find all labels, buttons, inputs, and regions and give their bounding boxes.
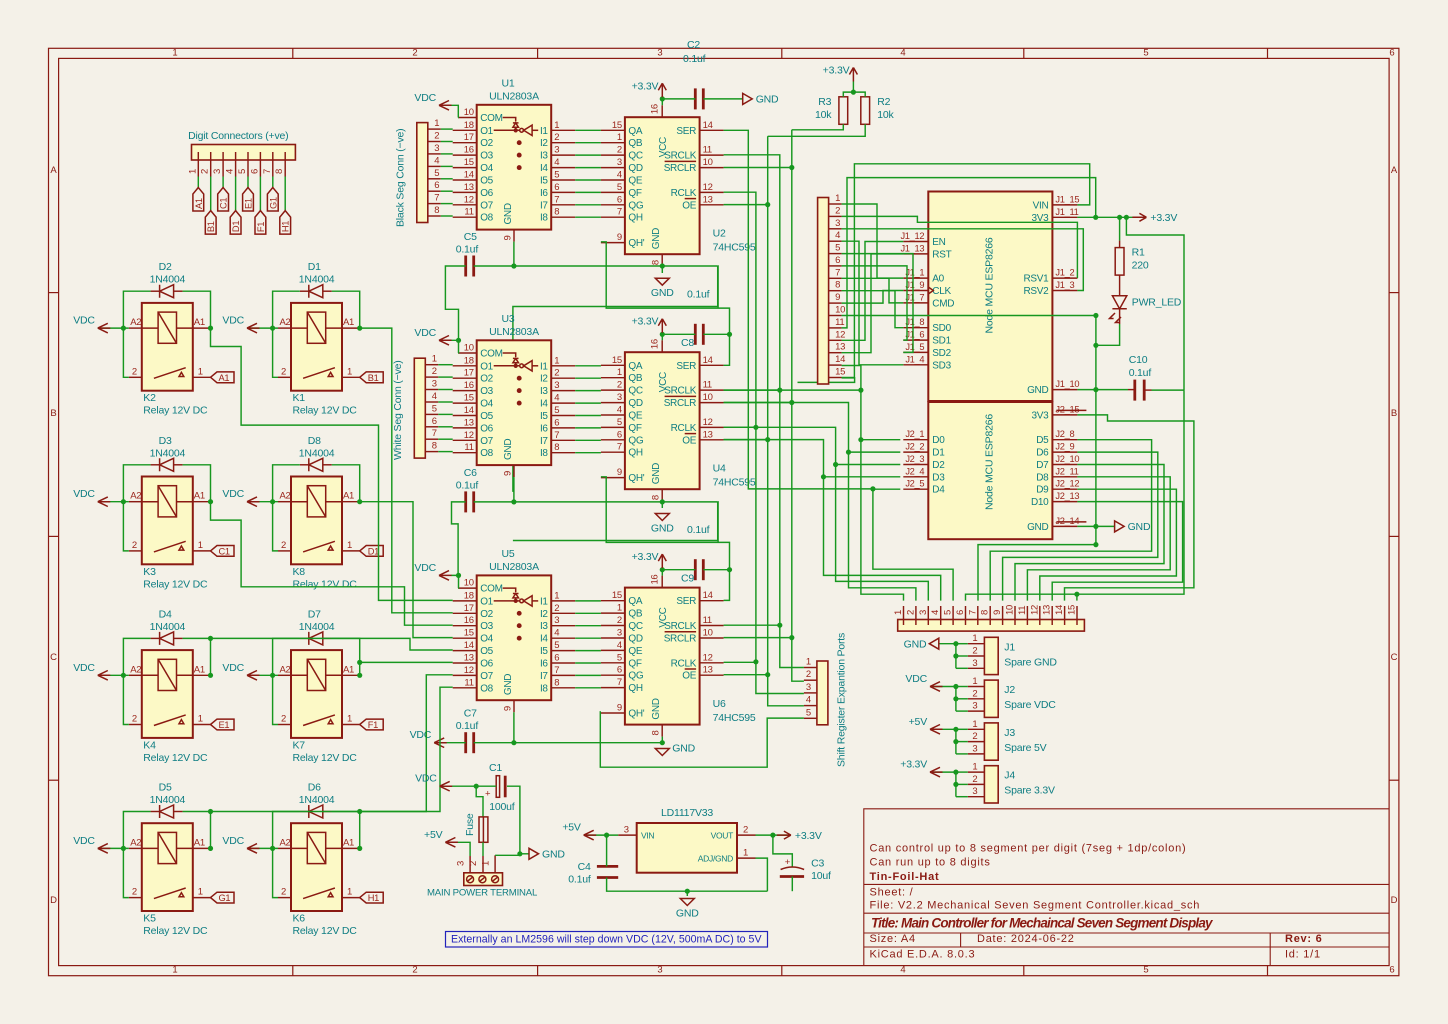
wire GND vertical from J1 pin10 row bbox=[1095, 316, 1097, 346]
svg-text:14: 14 bbox=[464, 405, 474, 416]
net tag G1 bbox=[267, 188, 278, 212]
svg-text:QB: QB bbox=[628, 138, 642, 149]
svg-text:J1_8: J1_8 bbox=[905, 317, 924, 327]
svg-text:10: 10 bbox=[464, 343, 474, 354]
relay K4 switch bbox=[154, 715, 186, 726]
svg-text:C1: C1 bbox=[489, 762, 502, 774]
svg-text:0.1uf: 0.1uf bbox=[687, 289, 710, 301]
ESP pin CLK (J1_9) bbox=[903, 290, 928, 292]
power flag VDC bbox=[247, 497, 260, 507]
svg-text:A1: A1 bbox=[219, 373, 230, 383]
wire U4.RCLK to riser 835.6 bbox=[724, 427, 836, 464]
svg-text:D0: D0 bbox=[932, 435, 945, 446]
svg-text:QH: QH bbox=[628, 683, 642, 694]
svg-text:6: 6 bbox=[617, 429, 622, 440]
svg-text:11: 11 bbox=[1017, 606, 1028, 615]
IC U1 ULN2803A bbox=[477, 105, 552, 230]
svg-text:Id: 1/1: Id: 1/1 bbox=[1285, 948, 1321, 960]
relay K8 coil wires bbox=[291, 501, 307, 503]
relay K6 switch bbox=[303, 888, 335, 899]
svg-text:A2: A2 bbox=[130, 491, 141, 502]
VDC at C7 bbox=[434, 742, 466, 744]
svg-text:D2: D2 bbox=[159, 261, 172, 273]
svg-text:4: 4 bbox=[225, 169, 236, 174]
resistor R1 bbox=[1115, 248, 1124, 276]
svg-text:9: 9 bbox=[617, 467, 622, 478]
wire pin2 to tag bbox=[210, 177, 212, 211]
svg-text:4: 4 bbox=[617, 170, 622, 181]
svg-text:VDC: VDC bbox=[73, 488, 95, 500]
svg-text:J2_13: J2_13 bbox=[1055, 491, 1079, 501]
svg-text:6: 6 bbox=[1389, 48, 1394, 59]
svg-text:9: 9 bbox=[502, 236, 513, 241]
ESP pin A0 (J1_1) bbox=[903, 277, 928, 279]
svg-text:I6: I6 bbox=[540, 423, 548, 434]
svg-text:A2: A2 bbox=[279, 664, 290, 675]
svg-text:13: 13 bbox=[464, 653, 474, 664]
ESP pin RSV1 (J1_2) bbox=[1052, 277, 1077, 279]
connector J3 Spare 5V bbox=[984, 723, 998, 760]
regulator U9 LD1117V33 bbox=[637, 823, 737, 873]
power flag VDC bbox=[247, 323, 260, 333]
svg-text:RCLK: RCLK bbox=[671, 658, 697, 669]
svg-text:VDC: VDC bbox=[222, 662, 244, 674]
wire +3.3V to C8 bbox=[662, 333, 695, 335]
relay K4 VDC flag bbox=[98, 674, 129, 676]
svg-text:1: 1 bbox=[972, 719, 977, 730]
wire J1 pin3 across to RSV2 bbox=[842, 229, 1084, 291]
svg-text:18: 18 bbox=[464, 590, 474, 601]
svg-text:QF: QF bbox=[628, 423, 641, 434]
ESP pin D6 (J2_9) bbox=[1052, 451, 1077, 453]
relay K4 right loop wire bbox=[183, 638, 211, 675]
svg-text:F1: F1 bbox=[368, 720, 378, 730]
svg-text:11: 11 bbox=[464, 442, 473, 453]
svg-text:3: 3 bbox=[624, 825, 629, 836]
svg-text:COM: COM bbox=[480, 113, 502, 124]
relay K7 VDC flag bbox=[247, 674, 278, 676]
net tag D1 bbox=[230, 211, 241, 235]
wire U6 SRCLK/SRCLR/RCLK/OE stubs to trunks bbox=[724, 624, 780, 626]
bus trunk SER/D4 x=748.3 bbox=[724, 130, 873, 489]
svg-text:4: 4 bbox=[900, 965, 905, 976]
svg-text:I5: I5 bbox=[540, 646, 548, 657]
ESP pin D8 (J2_11) bbox=[1052, 476, 1077, 478]
wire GND rail u3 right turn bbox=[513, 502, 718, 541]
relay K4 coil wires bbox=[142, 674, 158, 676]
power +3.3V at U6 VCC bbox=[661, 570, 663, 576]
ESP pin GND (J2_14) bbox=[1052, 525, 1077, 527]
IC U3 ULN2803A bbox=[477, 340, 552, 465]
power flag VDC bbox=[440, 781, 453, 791]
svg-text:1: 1 bbox=[198, 540, 203, 551]
svg-text:1N4004: 1N4004 bbox=[150, 621, 186, 633]
svg-text:I5: I5 bbox=[540, 176, 548, 187]
connector White Seg Conn bbox=[414, 358, 425, 458]
power +3.3V bbox=[1132, 213, 1146, 221]
digit connector pin 1 bbox=[197, 152, 199, 177]
svg-text:1N4004: 1N4004 bbox=[299, 794, 335, 806]
svg-text:VCC: VCC bbox=[658, 137, 669, 157]
svg-text:VCC: VCC bbox=[658, 372, 669, 392]
ESP pin D10 (J2_13) bbox=[1052, 501, 1077, 503]
connector MAIN POWER TERMINAL bbox=[464, 873, 503, 886]
svg-text:220: 220 bbox=[1132, 260, 1149, 272]
relay K5 coil bbox=[158, 832, 176, 863]
IC U2 74HC595 bbox=[625, 117, 700, 254]
svg-text:C9: C9 bbox=[681, 572, 694, 584]
svg-text:J1_7: J1_7 bbox=[905, 292, 924, 302]
relay K6 coil wires bbox=[291, 847, 307, 849]
svg-text:3: 3 bbox=[918, 610, 929, 615]
svg-text:D1: D1 bbox=[231, 221, 241, 232]
svg-text:QG: QG bbox=[628, 435, 643, 446]
wire U2 pin8 to GND rail + gnd symbol bbox=[661, 266, 663, 273]
svg-text:K3: K3 bbox=[143, 566, 156, 578]
wire C5 left to U3 VDC bbox=[445, 266, 465, 340]
svg-text:D3: D3 bbox=[932, 472, 945, 483]
svg-text:U6: U6 bbox=[713, 698, 726, 710]
svg-text:I4: I4 bbox=[540, 634, 548, 645]
svg-text:1: 1 bbox=[347, 366, 352, 377]
svg-text:J1_12: J1_12 bbox=[900, 231, 924, 241]
svg-text:2: 2 bbox=[434, 131, 439, 142]
svg-text:O5: O5 bbox=[480, 411, 493, 422]
net tag E1 bbox=[211, 719, 235, 730]
svg-text:SD0: SD0 bbox=[932, 323, 951, 334]
svg-text:GND: GND bbox=[651, 287, 674, 299]
svg-text:QG: QG bbox=[628, 671, 643, 682]
wire U4.SRCLR to riser 848.5 bbox=[724, 403, 849, 453]
svg-text:+3.3V: +3.3V bbox=[632, 316, 659, 328]
svg-text:OE: OE bbox=[682, 435, 696, 446]
svg-text:8: 8 bbox=[434, 205, 439, 216]
svg-text:4: 4 bbox=[900, 48, 905, 59]
svg-text:5: 5 bbox=[1143, 965, 1148, 976]
svg-text:B: B bbox=[1391, 408, 1397, 419]
wire VDC to U1 pin10 bbox=[451, 105, 458, 117]
relay K3 Relay 12V DC bbox=[142, 477, 193, 565]
svg-text:J1_9: J1_9 bbox=[905, 280, 924, 290]
relay K8 left loop wire bbox=[273, 465, 300, 551]
svg-text:4: 4 bbox=[930, 610, 941, 615]
relay K2 right loop wire bbox=[183, 291, 211, 328]
svg-text:1: 1 bbox=[198, 887, 203, 898]
svg-text:J1_5: J1_5 bbox=[905, 342, 924, 352]
svg-text:D1: D1 bbox=[368, 546, 379, 556]
svg-text:SRCLR: SRCLR bbox=[664, 398, 696, 409]
relay K1 Relay 12V DC bbox=[291, 303, 342, 391]
svg-text:QF: QF bbox=[628, 658, 641, 669]
svg-text:15: 15 bbox=[835, 367, 845, 378]
svg-text:GND: GND bbox=[651, 523, 674, 535]
svg-text:VDC: VDC bbox=[73, 662, 95, 674]
svg-text:3: 3 bbox=[554, 380, 559, 391]
relay K2 coil wires bbox=[142, 327, 158, 329]
svg-text:10: 10 bbox=[1005, 605, 1016, 615]
svg-text:O5: O5 bbox=[480, 646, 493, 657]
wire J1 pins common bbox=[956, 643, 968, 645]
svg-text:GND: GND bbox=[651, 698, 662, 719]
diode D2 1N4004 bbox=[160, 285, 174, 298]
relay K2 switch bbox=[154, 368, 186, 379]
svg-text:J1_4: J1_4 bbox=[905, 354, 924, 364]
svg-text:2: 2 bbox=[806, 669, 811, 680]
wire U3 pin9 to GND rail bbox=[513, 477, 515, 502]
svg-text:+5V: +5V bbox=[424, 829, 443, 841]
svg-text:Spare GND: Spare GND bbox=[1004, 656, 1057, 668]
svg-text:QB: QB bbox=[628, 373, 642, 384]
svg-text:0.1uf: 0.1uf bbox=[456, 720, 479, 732]
svg-text:O4: O4 bbox=[480, 634, 493, 645]
svg-text:B1: B1 bbox=[368, 373, 379, 383]
relay K8 switch bbox=[303, 541, 335, 552]
GND rail under U3/U4 bbox=[474, 501, 718, 503]
wire J1 pin6 to SD1 bbox=[842, 266, 907, 340]
svg-text:R3: R3 bbox=[818, 96, 831, 108]
connector J4 Spare 3.3V bbox=[984, 766, 998, 803]
svg-text:1: 1 bbox=[617, 367, 622, 378]
bus trunk SRCLR x=791.8 bbox=[724, 167, 792, 169]
svg-text:8: 8 bbox=[651, 731, 662, 736]
svg-text:GND: GND bbox=[1027, 522, 1048, 533]
wire C4 bottom to GND rail bbox=[607, 878, 768, 892]
connector J? Black Seg Conn bbox=[417, 123, 428, 223]
svg-text:11: 11 bbox=[703, 145, 712, 156]
digit connector pin 7 bbox=[272, 152, 274, 177]
svg-text:VCC: VCC bbox=[658, 607, 669, 627]
svg-text:File: V2.2 Mechanical Seven Se: File: V2.2 Mechanical Seven Segment Cont… bbox=[870, 900, 1201, 912]
svg-text:1: 1 bbox=[347, 714, 352, 725]
wire J1 pin8 to SD0 bbox=[842, 291, 904, 328]
svg-text:Size: A4: Size: A4 bbox=[870, 933, 916, 945]
svg-text:A1: A1 bbox=[194, 317, 205, 328]
svg-text:O5: O5 bbox=[480, 176, 493, 187]
svg-text:VDC: VDC bbox=[73, 835, 95, 847]
svg-text:1N4004: 1N4004 bbox=[299, 274, 335, 286]
svg-text:U1: U1 bbox=[501, 77, 514, 89]
svg-text:3: 3 bbox=[972, 701, 977, 712]
svg-text:17: 17 bbox=[464, 132, 474, 143]
svg-text:J2_4: J2_4 bbox=[905, 466, 924, 476]
label VDC at J2 bbox=[930, 686, 956, 688]
svg-text:8: 8 bbox=[274, 169, 285, 174]
svg-text:QA: QA bbox=[628, 126, 642, 137]
svg-text:QH': QH' bbox=[628, 238, 644, 249]
svg-text:Digit Connectors (+ve): Digit Connectors (+ve) bbox=[188, 130, 288, 142]
relay K5 VDC flag bbox=[98, 847, 129, 849]
svg-text:2: 2 bbox=[835, 205, 840, 216]
svg-text:VDC: VDC bbox=[222, 835, 244, 847]
relay K5 coil wires bbox=[142, 847, 158, 849]
wires BlackSegConn to U1 bbox=[441, 128, 453, 130]
wire U1 pin9 to GND rail bbox=[513, 242, 515, 266]
svg-text:QA: QA bbox=[628, 361, 642, 372]
svg-text:13: 13 bbox=[464, 417, 474, 428]
svg-text:1: 1 bbox=[617, 132, 622, 143]
svg-text:2: 2 bbox=[281, 714, 286, 725]
wire fuse to terminal pin2 bbox=[482, 842, 484, 856]
svg-text:C5: C5 bbox=[464, 231, 477, 243]
svg-text:3: 3 bbox=[657, 48, 662, 59]
wire J4 pins common bbox=[956, 771, 968, 773]
svg-text:A1: A1 bbox=[194, 198, 204, 209]
wire K3 to U5.O3 bbox=[211, 502, 453, 626]
svg-text:Spare 3.3V: Spare 3.3V bbox=[1004, 785, 1055, 797]
svg-text:G1: G1 bbox=[219, 893, 231, 903]
svg-text:4: 4 bbox=[617, 405, 622, 416]
svg-text:10: 10 bbox=[464, 578, 474, 589]
svg-text:A1: A1 bbox=[343, 491, 354, 502]
svg-text:6: 6 bbox=[432, 416, 437, 427]
svg-text:K5: K5 bbox=[143, 913, 156, 925]
svg-text:5: 5 bbox=[617, 182, 622, 193]
svg-text:2: 2 bbox=[281, 887, 286, 898]
svg-text:+3.3V: +3.3V bbox=[632, 551, 659, 563]
bus: U4.QH' to U6.SER chain bbox=[601, 477, 730, 601]
svg-text:J2_5: J2_5 bbox=[905, 479, 924, 489]
svg-text:VDC: VDC bbox=[414, 327, 436, 339]
wire J1 pin13 to RST bbox=[842, 254, 904, 353]
wire ADJ/GND to GND rail bbox=[756, 858, 768, 891]
svg-text:Externally an LM2596 will step: Externally an LM2596 will step down VDC … bbox=[451, 934, 762, 946]
relay K2 VDC flag bbox=[98, 327, 129, 329]
svg-text:9: 9 bbox=[835, 292, 840, 303]
svg-text:GND: GND bbox=[503, 203, 514, 224]
svg-text:15: 15 bbox=[464, 393, 474, 404]
svg-text:12: 12 bbox=[703, 652, 713, 663]
svg-text:I4: I4 bbox=[540, 399, 548, 410]
gnd symbol under LD1117 bbox=[686, 891, 688, 896]
svg-text:4: 4 bbox=[554, 157, 559, 168]
svg-text:A2: A2 bbox=[130, 664, 141, 675]
ESP pin SD3 (J1_4) bbox=[903, 364, 928, 366]
svg-text:8: 8 bbox=[554, 442, 559, 453]
power flag VDC bbox=[98, 844, 111, 854]
digit connector pin 8 bbox=[284, 152, 286, 177]
net tag A1 bbox=[193, 188, 204, 212]
svg-text:O3: O3 bbox=[480, 621, 493, 632]
svg-text:D8: D8 bbox=[308, 435, 321, 447]
svg-text:GND: GND bbox=[676, 908, 699, 920]
svg-text:J1_1: J1_1 bbox=[905, 268, 924, 278]
relay K6 left loop wire bbox=[273, 812, 300, 898]
net tag B1 bbox=[360, 372, 384, 383]
svg-text:U5: U5 bbox=[501, 548, 514, 560]
svg-text:3: 3 bbox=[617, 392, 622, 403]
svg-text:7: 7 bbox=[617, 207, 622, 218]
svg-text:K6: K6 bbox=[293, 913, 306, 925]
svg-text:5: 5 bbox=[617, 417, 622, 428]
wire +3.3V loop down to lower connector pin6/15 bbox=[966, 390, 1185, 600]
svg-text:J1_2: J1_2 bbox=[1055, 268, 1074, 278]
IC U6 74HC595 bbox=[625, 588, 700, 725]
svg-text:8: 8 bbox=[432, 441, 437, 452]
power +5V at terminal pin3 bbox=[445, 842, 470, 856]
svg-text:I3: I3 bbox=[540, 386, 548, 397]
svg-text:8: 8 bbox=[835, 280, 840, 291]
capacitor C8 bbox=[694, 324, 697, 345]
relay K7 right loop wire bbox=[332, 638, 360, 675]
svg-text:QH: QH bbox=[628, 448, 642, 459]
svg-text:0.1uf: 0.1uf bbox=[568, 873, 591, 885]
svg-text:14: 14 bbox=[835, 354, 845, 365]
ESP pin D0 (J2_1) bbox=[903, 439, 928, 441]
diode D8 1N4004 bbox=[309, 458, 323, 471]
svg-text:3: 3 bbox=[972, 743, 977, 754]
svg-text:I8: I8 bbox=[540, 448, 548, 459]
capacitor C9 bbox=[694, 559, 697, 580]
svg-text:1: 1 bbox=[972, 633, 977, 644]
diode D3 1N4004 bbox=[160, 458, 174, 471]
bus trunk OE x=767.7 bbox=[724, 204, 768, 206]
svg-text:2: 2 bbox=[412, 48, 417, 59]
svg-text:A1: A1 bbox=[343, 837, 354, 848]
svg-text:D8: D8 bbox=[1036, 472, 1049, 483]
svg-text:I7: I7 bbox=[540, 671, 548, 682]
net tag C1 bbox=[211, 546, 235, 557]
svg-text:Node MCU ESP8266: Node MCU ESP8266 bbox=[983, 237, 995, 333]
svg-text:2: 2 bbox=[468, 861, 479, 866]
wire VDC to C1 bbox=[440, 785, 497, 787]
svg-text:3: 3 bbox=[806, 682, 811, 693]
wire K7 to U5.O6 bbox=[360, 661, 453, 663]
svg-text:1: 1 bbox=[554, 590, 559, 601]
relay K7 coil bbox=[307, 659, 325, 690]
wire GND rail turning down right bbox=[513, 266, 718, 492]
svg-text:O7: O7 bbox=[480, 436, 493, 447]
svg-text:74HC595: 74HC595 bbox=[713, 242, 756, 254]
svg-text:J1_3: J1_3 bbox=[1055, 280, 1074, 290]
wire J1 pin15 up over to VIN bbox=[842, 164, 1090, 378]
ESP pin RSV2 (J1_3) bbox=[1052, 290, 1077, 292]
svg-text:QF: QF bbox=[628, 188, 641, 199]
svg-text:VIN: VIN bbox=[641, 831, 654, 841]
svg-text:1: 1 bbox=[187, 169, 198, 174]
svg-text:2: 2 bbox=[972, 774, 977, 785]
svg-text:12: 12 bbox=[703, 182, 713, 193]
wire J1 pin10 across to GND vertical bbox=[842, 315, 1096, 317]
svg-text:D1: D1 bbox=[308, 261, 321, 273]
svg-text:6: 6 bbox=[1389, 965, 1394, 976]
relay K7 coil wires bbox=[291, 674, 307, 676]
ESP pin EN (J1_12) bbox=[903, 241, 928, 243]
GND symbol bbox=[1115, 521, 1125, 532]
svg-text:5: 5 bbox=[835, 243, 840, 254]
svg-text:2: 2 bbox=[617, 380, 622, 391]
svg-text:Relay 12V DC: Relay 12V DC bbox=[143, 925, 208, 937]
svg-text:RST: RST bbox=[932, 249, 951, 260]
relay K3 right loop wire bbox=[183, 465, 211, 502]
svg-text:GND: GND bbox=[503, 674, 514, 695]
svg-text:0.1uf: 0.1uf bbox=[687, 524, 710, 536]
svg-text:QH: QH bbox=[628, 213, 642, 224]
svg-text:7: 7 bbox=[617, 442, 622, 453]
GND rail under U5/U6 bbox=[474, 742, 663, 744]
relay K8 VDC flag bbox=[247, 501, 278, 503]
svg-text:9: 9 bbox=[502, 471, 513, 476]
relay K4 left loop wire bbox=[123, 638, 150, 724]
svg-text:+5V: +5V bbox=[562, 822, 581, 834]
svg-text:2: 2 bbox=[972, 688, 977, 699]
net tag F1 bbox=[255, 211, 266, 235]
svg-text:1: 1 bbox=[198, 366, 203, 377]
relay K8 Relay 12V DC bbox=[291, 477, 342, 565]
svg-text:+5V: +5V bbox=[909, 716, 928, 728]
power +3.3V bbox=[658, 319, 666, 333]
GND symbol bbox=[529, 848, 539, 859]
svg-text:Relay 12V DC: Relay 12V DC bbox=[293, 925, 358, 937]
